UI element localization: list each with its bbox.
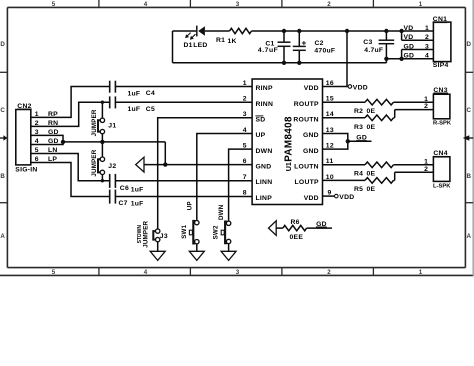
svg-text:LOUTP: LOUTP: [295, 179, 319, 186]
svg-text:LINN: LINN: [256, 179, 273, 186]
svg-text:UP: UP: [256, 132, 266, 139]
node dot C2 top: [297, 29, 301, 33]
svg-text:R1: R1: [216, 37, 225, 44]
svg-text:J2: J2: [108, 163, 116, 170]
svg-text:1: 1: [419, 269, 423, 276]
svg-text:1: 1: [424, 158, 428, 165]
wire GD pin3: [31, 135, 63, 142]
svg-text:L-SPK: L-SPK: [433, 184, 451, 190]
resistor R4 0E: [365, 162, 394, 168]
switch SW2: [212, 204, 230, 251]
wire left loop closure: [173, 30, 197, 32]
node dot GD tie: [399, 57, 403, 61]
wire VDD pin9: [323, 195, 335, 197]
wire CN1 pin4: [386, 58, 433, 60]
svg-text:2: 2: [424, 166, 428, 173]
svg-text:1uF: 1uF: [131, 201, 144, 208]
svg-text:RINN: RINN: [256, 101, 274, 108]
svg-text:DWN: DWN: [256, 148, 273, 155]
svg-text:GD: GD: [404, 43, 415, 50]
wire LOUTN pin11: [323, 164, 366, 166]
wire DWN pin5: [229, 149, 253, 221]
svg-text:UP: UP: [187, 201, 194, 210]
svg-text:B: B: [0, 173, 5, 180]
capacitor C5 1uF: [110, 96, 155, 113]
svg-text:VDD: VDD: [353, 84, 368, 91]
node dot GD: [61, 140, 65, 144]
resistor R2 0E: [365, 99, 394, 105]
svg-text:0E: 0E: [367, 186, 376, 193]
svg-text:VDD: VDD: [339, 194, 354, 201]
svg-text:1uF: 1uF: [128, 106, 141, 113]
LED D1: [184, 26, 208, 50]
svg-text:1uF: 1uF: [131, 186, 144, 193]
svg-text:2: 2: [425, 34, 429, 41]
node VDD pin16: [348, 85, 352, 89]
wire RN to C5: [31, 102, 110, 126]
svg-text:D: D: [466, 41, 471, 48]
wire SD pin3: [158, 118, 252, 229]
gnd arrow hollow: [136, 157, 144, 172]
svg-text:0E: 0E: [367, 170, 376, 177]
wire VDD top rail: [205, 30, 230, 32]
switch SW1: [181, 201, 199, 251]
svg-text:4: 4: [144, 1, 148, 8]
svg-text:GND: GND: [303, 148, 319, 155]
wire ROUTN pin14: [323, 117, 366, 119]
svg-text:ROUTN: ROUTN: [293, 117, 318, 124]
svg-text:1: 1: [425, 25, 429, 32]
svg-text:SIG-IN: SIG-IN: [15, 167, 37, 174]
svg-text:C2: C2: [315, 40, 324, 47]
svg-text:2: 2: [327, 269, 331, 276]
wire GND arrow to pin6: [144, 164, 252, 166]
node dot C3 GND tee: [384, 57, 388, 61]
capacitor C6 1uF: [110, 174, 144, 194]
connector CN2 SIG-IN: [15, 103, 58, 174]
svg-text:DWN: DWN: [218, 204, 225, 220]
svg-text:D: D: [0, 41, 5, 48]
svg-text:D1: D1: [184, 42, 193, 49]
svg-text:R-SPK: R-SPK: [433, 120, 452, 126]
svg-text:A: A: [466, 233, 471, 240]
jumper J1: [91, 102, 117, 142]
zone letters right: [466, 41, 471, 240]
svg-text:0E: 0E: [367, 124, 376, 131]
node dot VDD rail: [345, 29, 349, 33]
zone ticks top: [99, 0, 374, 7]
wire CN1 pin3 jog: [402, 49, 434, 51]
svg-text:4: 4: [425, 53, 429, 60]
ground under SW1: [189, 251, 204, 260]
capacitor C2 470uF: [293, 31, 336, 63]
svg-text:LINP: LINP: [256, 195, 273, 202]
svg-text:7: 7: [243, 174, 247, 181]
svg-text:4.7uF: 4.7uF: [364, 47, 383, 54]
wire UP pin4: [197, 134, 252, 221]
svg-text:R5: R5: [354, 186, 363, 193]
wire GND pins 13/12: [323, 134, 348, 150]
svg-text:JUMPER: JUMPER: [143, 220, 150, 247]
svg-text:B: B: [466, 173, 471, 180]
svg-text:RINP: RINP: [256, 85, 273, 92]
svg-text:4: 4: [144, 269, 148, 276]
zone letters left: [0, 41, 5, 240]
wire LOUTP pin10: [323, 179, 366, 181]
capacitor C1 4.7uF: [258, 31, 291, 63]
svg-text:C: C: [466, 107, 471, 114]
frame border: [0, 0, 474, 275]
svg-text:C7: C7: [119, 200, 128, 207]
svg-text:3: 3: [425, 43, 429, 50]
svg-text:GND: GND: [256, 164, 272, 171]
resistor R3 0E: [365, 115, 394, 121]
svg-text:VDD: VDD: [304, 85, 319, 92]
svg-text:LOUTN: LOUTN: [294, 164, 319, 171]
capacitor C3 4.7uF: [363, 31, 394, 63]
capacitor C7 1uF: [110, 190, 144, 208]
wire C5 to pin2: [115, 101, 252, 103]
wire LP to C7: [31, 163, 110, 197]
wire VDD pin16: [323, 86, 349, 88]
node dot J2 bottom: [101, 179, 104, 182]
svg-text:SW2: SW2: [212, 225, 219, 239]
svg-text:SW1: SW1: [181, 224, 188, 238]
node GD label: [356, 135, 367, 142]
svg-text:0E: 0E: [367, 108, 376, 115]
svg-text:GND: GND: [303, 132, 319, 139]
IC pin numbers right: [326, 80, 334, 197]
centre arrow left: [0, 135, 7, 140]
svg-text:1: 1: [419, 1, 423, 8]
node dot GND elbow: [163, 162, 167, 166]
ground under J3: [150, 251, 165, 260]
svg-text:R2: R2: [354, 108, 363, 115]
IC pin labels left: [256, 85, 274, 202]
svg-text:8: 8: [243, 190, 247, 197]
svg-text:SD: SD: [256, 117, 266, 124]
svg-text:GD: GD: [404, 53, 415, 60]
svg-text:A: A: [0, 233, 5, 240]
svg-text:C6: C6: [120, 185, 129, 192]
svg-text:ROUTP: ROUTP: [294, 101, 319, 108]
wire GND bottom rail: [173, 62, 387, 64]
wire C4 to pin1: [115, 86, 252, 88]
wire RP to C4: [31, 87, 110, 118]
svg-text:3: 3: [236, 269, 240, 276]
svg-text:J3: J3: [160, 233, 168, 240]
svg-text:JUMPER: JUMPER: [91, 149, 98, 176]
connector CN1 SIP4: [404, 16, 451, 69]
wire C6 to pin7: [115, 180, 252, 182]
node dot C3 top: [384, 29, 388, 33]
centre arrow right: [463, 135, 473, 140]
resistor R1 1K: [216, 28, 252, 45]
zone numbers bottom: [52, 269, 423, 276]
node dot J1 top: [101, 101, 104, 104]
wire GD pin4: [31, 142, 63, 145]
svg-text:VDD: VDD: [304, 195, 319, 202]
wire C7 to pin8: [115, 196, 252, 198]
resistor R5 0E: [365, 178, 394, 184]
wire LN to C6: [31, 154, 110, 181]
svg-text:1K: 1K: [228, 38, 237, 45]
wire GD stub: [348, 140, 372, 142]
svg-text:1uF: 1uF: [128, 90, 141, 97]
svg-text:1: 1: [424, 96, 428, 103]
svg-text:3: 3: [236, 1, 240, 8]
svg-text:C3: C3: [363, 39, 372, 46]
zone ticks bottom: [99, 268, 374, 276]
svg-text:C: C: [0, 107, 5, 114]
jumper J3 STDWN: [137, 220, 168, 251]
node dot J column: [100, 140, 104, 144]
wire ROUTP pin15: [323, 101, 366, 103]
node dot C2 bottom: [297, 61, 301, 65]
svg-text:C4: C4: [146, 90, 155, 97]
svg-text:R6: R6: [291, 219, 300, 226]
ground under SW2: [221, 251, 236, 260]
svg-text:470uF: 470uF: [314, 47, 335, 54]
zone ticks right: [465, 72, 473, 202]
zone ticks left: [0, 72, 7, 202]
resistor R6 0EE with gnd arrow: [269, 219, 333, 241]
zone numbers top: [52, 1, 423, 8]
node dot C1 top: [282, 29, 286, 33]
IC pin numbers left: [243, 80, 247, 197]
svg-text:SIP4: SIP4: [433, 62, 449, 69]
node dot C1 bottom: [282, 61, 286, 65]
node VDD pin9: [335, 194, 339, 198]
svg-text:JUMPER: JUMPER: [91, 109, 98, 136]
svg-text:0EE: 0EE: [290, 234, 304, 241]
jumper J2: [91, 142, 117, 181]
svg-text:LED: LED: [193, 42, 207, 49]
wire GND run: [63, 141, 165, 143]
svg-text:U1: U1: [284, 162, 293, 171]
connector CN4 L-SPK: [424, 150, 451, 189]
svg-text:R3: R3: [354, 124, 363, 131]
node dot GND tie: [346, 139, 350, 143]
capacitor C4 1uF: [110, 81, 155, 98]
connector CN3 R-SPK: [424, 87, 452, 127]
svg-text:2: 2: [424, 103, 428, 110]
svg-text:2: 2: [327, 1, 331, 8]
svg-text:5: 5: [52, 269, 56, 276]
IC pin labels right: [293, 85, 319, 202]
svg-text:4.7uF: 4.7uF: [258, 47, 279, 54]
svg-text:VD: VD: [404, 25, 414, 32]
svg-text:J1: J1: [108, 123, 116, 130]
svg-text:VD: VD: [404, 34, 414, 41]
wire CN1 pin2 jog: [401, 31, 403, 40]
svg-text:C5: C5: [146, 106, 155, 113]
svg-text:R4: R4: [354, 170, 363, 177]
node dot VD tie: [399, 29, 403, 33]
svg-text:5: 5: [52, 1, 56, 8]
